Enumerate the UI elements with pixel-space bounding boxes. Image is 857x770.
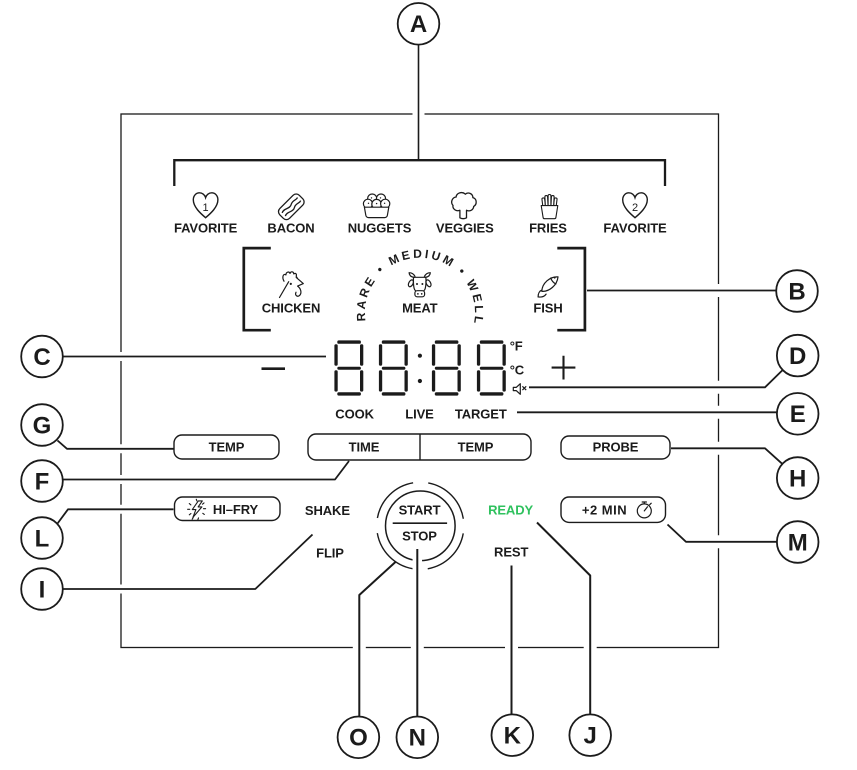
- svg-text:L: L: [35, 525, 50, 552]
- callout line M: [668, 525, 777, 542]
- callout line K: [505, 566, 518, 715]
- callout line H: [671, 448, 783, 464]
- start/stop inner circle: [386, 491, 456, 561]
- callout line C: [64, 352, 327, 361]
- bracket B left: [244, 248, 271, 330]
- svg-text:SHAKE: SHAKE: [305, 503, 350, 518]
- callout line A (vertical from circle A to bracket): [413, 45, 425, 159]
- callout circle G: [21, 404, 63, 446]
- callout line E: [517, 406, 777, 419]
- callout line G: [58, 441, 174, 449]
- svg-text:STOP: STOP: [402, 529, 437, 544]
- svg-text:C: C: [33, 344, 50, 371]
- 7-segment digit 2: [379, 340, 408, 395]
- svg-text:°F: °F: [510, 338, 523, 353]
- icon favorite 1 (heart): [193, 193, 218, 218]
- svg-text:VEGGIES: VEGGIES: [436, 221, 494, 236]
- svg-text:N: N: [409, 725, 426, 752]
- callout circle N: [397, 717, 439, 759]
- callout circle A: [398, 3, 440, 45]
- svg-text:LIVE: LIVE: [405, 407, 434, 422]
- svg-text:NUGGETS: NUGGETS: [348, 221, 412, 236]
- button +2 MIN: [561, 497, 666, 522]
- callout circle O: [338, 717, 380, 759]
- callout circle C: [21, 336, 63, 378]
- svg-text:FLIP: FLIP: [316, 545, 344, 560]
- svg-text:E: E: [790, 401, 806, 428]
- icon bacon: [277, 192, 306, 221]
- callout circle J: [569, 714, 611, 756]
- bracket B right: [557, 248, 585, 330]
- stopwatch icon: [637, 502, 651, 518]
- callout line D: [529, 370, 783, 387]
- icon nuggets: [363, 194, 389, 218]
- callout line N: [413, 549, 423, 717]
- callout circle K: [492, 714, 534, 756]
- panel outline: [121, 114, 719, 648]
- icon fries: [541, 195, 558, 219]
- icon chicken (rooster head): [280, 272, 304, 298]
- svg-text:MEAT: MEAT: [402, 300, 438, 315]
- icon veggies (broccoli): [452, 193, 476, 219]
- button PROBE: [561, 436, 670, 459]
- svg-text:+2 MIN: +2 MIN: [582, 503, 627, 518]
- svg-text:G: G: [33, 412, 52, 439]
- start/stop divider: [393, 522, 447, 524]
- minus symbol: [262, 367, 286, 370]
- callout line J: [537, 523, 590, 715]
- svg-text:B: B: [788, 278, 805, 305]
- button HI-FRY: [175, 497, 281, 521]
- 7-segment digit 1: [334, 340, 363, 395]
- plus symbol: [552, 356, 576, 380]
- svg-text:TEMP: TEMP: [209, 440, 245, 455]
- callout circle I: [21, 568, 63, 610]
- callout line N (over circle): [413, 549, 423, 600]
- callout circle H: [777, 457, 819, 499]
- svg-text:COOK: COOK: [335, 407, 374, 422]
- mute speaker icon: [513, 384, 526, 395]
- svg-text:I: I: [39, 576, 46, 603]
- callout circle B: [776, 270, 818, 312]
- callout circle M: [777, 521, 819, 563]
- hi-fry lightning icon: [188, 499, 206, 519]
- 7-segment digit 3: [432, 340, 461, 395]
- svg-text:BACON: BACON: [267, 221, 314, 236]
- svg-text:TARGET: TARGET: [455, 407, 507, 422]
- svg-text:O: O: [349, 725, 368, 752]
- svg-text:FISH: FISH: [533, 300, 562, 315]
- svg-text:J: J: [584, 723, 597, 750]
- callout circle L: [21, 517, 63, 559]
- svg-text:FAVORITE: FAVORITE: [174, 221, 238, 236]
- svg-text:TIME: TIME: [349, 440, 380, 455]
- button TEMP (left): [174, 435, 279, 459]
- colon dots: [418, 354, 422, 384]
- svg-text:K: K: [504, 723, 522, 750]
- callout line L: [58, 509, 174, 523]
- bracket for group A: [174, 160, 665, 186]
- svg-text:CHICKEN: CHICKEN: [262, 300, 321, 315]
- svg-text:A: A: [410, 11, 427, 38]
- svg-text:HI–FRY: HI–FRY: [213, 502, 259, 517]
- callout line O: [359, 562, 396, 717]
- svg-text:START: START: [399, 502, 441, 517]
- svg-text:M: M: [788, 529, 808, 556]
- icon fish: [538, 290, 546, 297]
- start/stop dashed outer ring: [377, 482, 464, 569]
- icon meat (cow head): [407, 273, 432, 297]
- svg-text:REST: REST: [494, 545, 528, 560]
- callout line F: [64, 461, 350, 480]
- svg-text:READY: READY: [488, 503, 533, 518]
- svg-text:PROBE: PROBE: [593, 440, 639, 455]
- button TIME | TEMP: [308, 434, 531, 460]
- callout line I: [64, 535, 313, 590]
- svg-text:F: F: [35, 468, 50, 495]
- svg-text:H: H: [789, 465, 806, 492]
- callout line B: [587, 284, 776, 297]
- svg-text:1: 1: [203, 202, 209, 214]
- svg-text:FRIES: FRIES: [529, 221, 567, 236]
- svg-text:TEMP: TEMP: [458, 440, 494, 455]
- 7-segment digit 4: [477, 340, 506, 395]
- svg-text:°C: °C: [510, 363, 525, 378]
- icon favorite 2 (heart): [623, 193, 648, 218]
- svg-text:FAVORITE: FAVORITE: [603, 221, 667, 236]
- svg-text:2: 2: [632, 202, 638, 214]
- callout circle F: [21, 460, 63, 502]
- callout circle D: [777, 335, 819, 377]
- svg-text:D: D: [789, 343, 806, 370]
- callout circle E: [777, 393, 819, 435]
